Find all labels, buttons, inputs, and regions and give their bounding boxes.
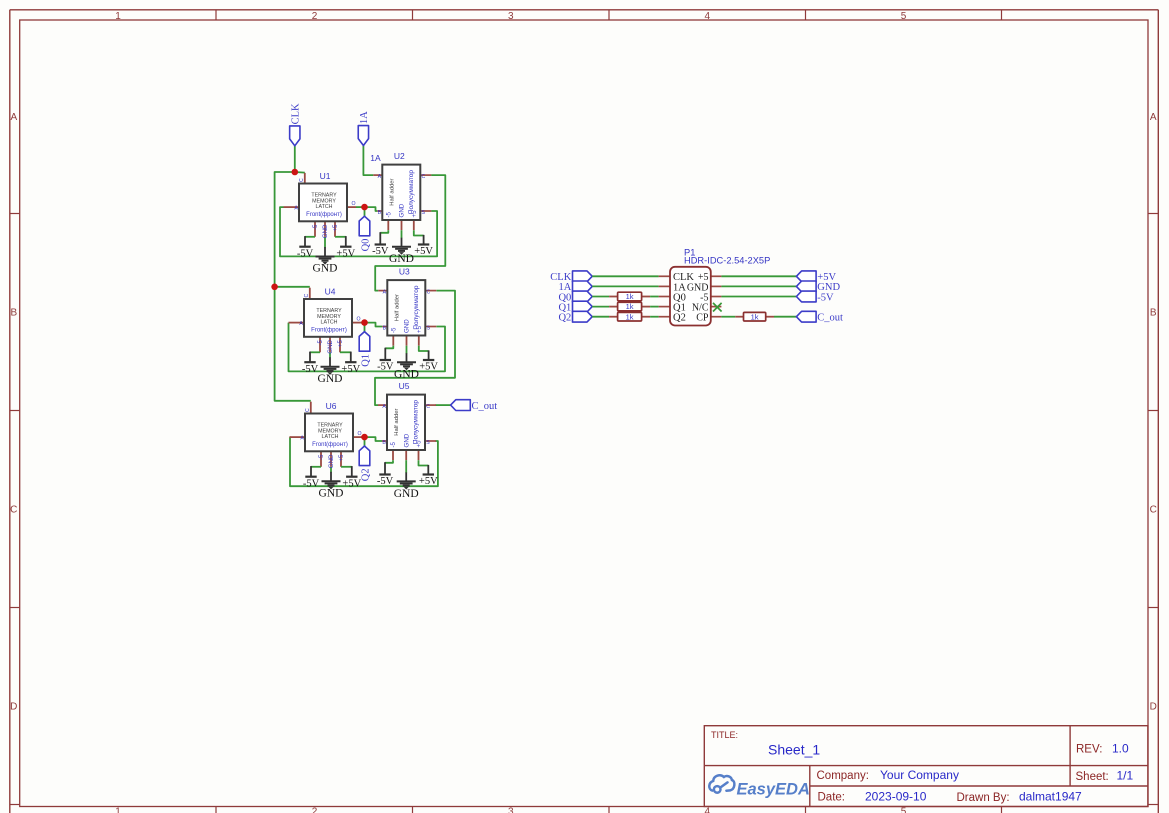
svg-text:Q2: Q2 <box>558 313 571 324</box>
svg-text:Sheet:: Sheet: <box>1076 771 1109 783</box>
svg-text:S: S <box>422 210 426 216</box>
U3 pin label C <box>427 289 431 295</box>
net flag Q0 at P1 <box>558 291 592 303</box>
U5 body <box>387 395 425 450</box>
title block REV label <box>1076 743 1102 755</box>
U6 +5V power symbol <box>341 466 362 489</box>
svg-text:C: C <box>426 404 430 410</box>
U2 -5V power symbol <box>372 230 389 257</box>
P1 left pin names <box>673 272 694 323</box>
svg-text:Q1: Q1 <box>360 354 371 367</box>
U2 pin A stub <box>373 174 382 176</box>
net flag CLK at P1 <box>550 271 592 283</box>
U6 pin labels -5 GND +5 <box>318 454 345 468</box>
net label 1A on wire <box>370 153 381 163</box>
U1 pin labels -5 GND +5 <box>312 224 339 238</box>
wire Q0 junction to flag <box>364 207 366 216</box>
svg-text:GND: GND <box>394 369 419 381</box>
svg-text:-5V: -5V <box>302 364 319 375</box>
junction CLK at U1 <box>292 169 299 176</box>
EasyEDA logo text <box>737 781 810 799</box>
svg-text:C: C <box>305 408 311 412</box>
svg-text:S: S <box>426 440 430 446</box>
svg-text:Your Company: Your Company <box>880 768 959 782</box>
title block author dalmat1947 <box>1019 789 1082 803</box>
net flag Q2 <box>359 446 371 481</box>
svg-text:GND: GND <box>318 373 343 385</box>
svg-text:5: 5 <box>901 11 907 22</box>
wire CLK flag to P1 pin 1 <box>592 275 658 277</box>
U5 pin B stub <box>382 440 387 442</box>
U3 pin label B <box>383 325 387 331</box>
U4 power pin stubs <box>320 337 340 353</box>
svg-text:Q2: Q2 <box>360 468 371 481</box>
U2 GND symbol <box>389 230 414 265</box>
junction CLK spine at U4 <box>271 284 278 291</box>
net flag +5V at P1 <box>796 271 836 283</box>
wire Q0 flag to resistor R1 <box>592 296 609 298</box>
svg-text:5: 5 <box>901 807 907 813</box>
svg-text:-5: -5 <box>317 339 324 345</box>
svg-text:GND: GND <box>313 263 338 275</box>
svg-text:-5: -5 <box>390 441 397 447</box>
svg-text:1k: 1k <box>626 312 634 321</box>
U3 body <box>387 280 425 335</box>
svg-text:A: A <box>382 404 386 410</box>
wire CLK junction to U1 pin C <box>295 171 305 174</box>
U2 power pin stubs <box>388 220 414 230</box>
U3 power pin stubs <box>393 336 419 346</box>
svg-text:LATCH: LATCH <box>322 434 339 440</box>
P1 left pin 3 stub <box>659 296 670 298</box>
svg-text:U6: U6 <box>326 401 337 411</box>
net flag C_out at P1 <box>796 311 843 323</box>
svg-text:+5V: +5V <box>419 476 438 487</box>
U3 pin labels -5 GND +5 <box>391 319 424 333</box>
U2 pin labels -5 GND +5 <box>386 203 419 217</box>
svg-text:4: 4 <box>705 807 711 813</box>
svg-text:B: B <box>383 325 387 331</box>
svg-text:A: A <box>383 289 387 295</box>
title block company name <box>880 768 959 782</box>
resistor R1 leads <box>609 296 650 298</box>
wire 1A flag to U2 pin A <box>363 146 373 176</box>
P1 part name HDR-IDC-2.54-2X5P <box>684 256 770 266</box>
wire resistor R3 to P1 <box>650 316 659 318</box>
svg-text:3: 3 <box>508 11 514 22</box>
net flag Q2 at P1 <box>558 311 592 323</box>
svg-text:Date:: Date: <box>818 791 846 803</box>
resistor R4 leads <box>735 316 774 318</box>
U1 pin O stub <box>347 206 356 208</box>
svg-text:3: 3 <box>508 807 514 813</box>
title block revision 1.0 <box>1112 741 1129 755</box>
svg-text:A: A <box>299 321 303 327</box>
U6 pin O stub <box>353 436 362 438</box>
svg-text:Полусумматор: Полусумматор <box>408 170 415 214</box>
U5 +5V power symbol <box>419 460 439 487</box>
U4 reference designator <box>325 287 336 297</box>
U5 GND symbol <box>394 460 419 500</box>
title block sheet number 1/1 <box>1117 768 1134 782</box>
U4 +5V power symbol <box>340 352 361 375</box>
U6 power pin stubs <box>321 451 341 467</box>
svg-text:+5: +5 <box>338 454 345 462</box>
U1 power pin stubs <box>315 221 335 237</box>
U3 pin label S <box>427 325 431 331</box>
U5 pin C stub <box>425 404 436 406</box>
title block Sheet label <box>1076 771 1109 783</box>
wire U5 S feedback to U6 A <box>290 437 438 486</box>
svg-text:GND: GND <box>327 339 334 353</box>
U4 GND symbol <box>318 352 343 385</box>
svg-text:+5V: +5V <box>342 478 361 489</box>
svg-text:U2: U2 <box>394 151 405 161</box>
svg-text:+5V: +5V <box>336 248 355 259</box>
U4 pin label O <box>356 317 360 323</box>
junction Q0 node <box>361 204 368 211</box>
wire resistor R1 to P1 <box>650 296 659 298</box>
svg-text:1k: 1k <box>626 292 634 301</box>
svg-text:D: D <box>1150 701 1157 712</box>
wire U2 C to U3 A carry chain <box>375 175 445 291</box>
svg-text:EasyEDA: EasyEDA <box>737 781 810 799</box>
U1 pin A stub <box>284 206 300 208</box>
wire P1 CP to resistor R4 <box>721 316 735 318</box>
P1 right pin 6 stub <box>711 275 722 277</box>
svg-text:+5: +5 <box>337 339 344 347</box>
svg-text:1: 1 <box>115 807 121 813</box>
wire P1 +5 to +5V flag <box>721 275 796 277</box>
svg-text:-5V: -5V <box>303 478 320 489</box>
svg-text:A: A <box>294 205 298 211</box>
svg-text:-5: -5 <box>386 211 393 217</box>
U3 pin A stub <box>378 290 387 292</box>
U2 pin C stub <box>420 174 431 176</box>
U6 pin label O <box>357 431 361 437</box>
svg-text:+5: +5 <box>416 440 423 448</box>
wire Q0 junction to U2 pin B <box>365 207 378 211</box>
wire U4 O to junction Q1 <box>361 322 365 324</box>
svg-text:Q2: Q2 <box>673 313 686 324</box>
svg-text:A: A <box>10 112 17 123</box>
P1 left pin 1 stub <box>659 275 670 277</box>
net flag Q1 at P1 <box>558 301 592 313</box>
P1 left pin 2 stub <box>659 285 670 287</box>
svg-text:U4: U4 <box>325 287 336 297</box>
svg-text:GND: GND <box>389 253 414 265</box>
svg-text:HDR-IDC-2.54-2X5P: HDR-IDC-2.54-2X5P <box>684 256 770 266</box>
svg-text:C_out: C_out <box>472 401 498 412</box>
U3 pin label A <box>383 289 387 295</box>
U3 pin C stub <box>425 290 436 292</box>
wire U3 C to U5 A carry chain <box>375 291 455 406</box>
P1 left pin 5 stub <box>659 316 670 318</box>
wire Q2 flag to resistor R3 <box>592 316 609 318</box>
wire U3 S feedback to U4 A <box>289 323 446 372</box>
wire Q2 junction to flag <box>364 437 366 446</box>
U1 GND symbol <box>313 237 338 275</box>
svg-text:CP: CP <box>696 313 709 324</box>
svg-text:Q0: Q0 <box>360 239 371 252</box>
svg-text:GND: GND <box>394 488 419 500</box>
wire resistor R2 to P1 <box>650 306 659 308</box>
P1 right pin names <box>687 272 709 323</box>
U5 pin S stub <box>425 440 436 442</box>
svg-text:B: B <box>382 440 386 446</box>
P1 right pin 10 stub <box>711 316 722 318</box>
wire Q1 flag to resistor R2 <box>592 306 609 308</box>
U2 pin label A <box>378 174 382 180</box>
U3 reference designator <box>399 267 410 277</box>
net flag Q1 <box>359 332 371 367</box>
svg-text:+5: +5 <box>332 224 339 232</box>
svg-text:GND: GND <box>404 319 411 333</box>
svg-text:B: B <box>378 210 382 216</box>
EasyEDA logo icon <box>709 775 734 792</box>
resistor R3 leads <box>609 316 650 318</box>
wire CLK flag to junction <box>294 146 296 172</box>
svg-text:U3: U3 <box>399 267 410 277</box>
wire U5 C to C_out flag <box>435 404 450 406</box>
svg-text:+5V: +5V <box>341 364 360 375</box>
U5 pin label S <box>426 440 430 446</box>
net flag 1A at P1 <box>558 281 592 293</box>
wire resistor R4 to C_out flag <box>774 316 796 318</box>
svg-text:-5V: -5V <box>372 246 389 257</box>
U2 +5V power symbol <box>414 230 434 257</box>
svg-text:GND: GND <box>399 203 406 217</box>
svg-text:1/1: 1/1 <box>1117 768 1134 782</box>
no-connect X on P1 N/C pin <box>713 303 722 312</box>
ruler column numbers bottom <box>115 807 907 813</box>
svg-text:-5: -5 <box>312 224 319 230</box>
svg-text:1k: 1k <box>626 302 634 311</box>
U1 pin label O <box>351 201 355 207</box>
P1 right pin 7 stub <box>711 285 722 287</box>
svg-text:U5: U5 <box>399 381 410 391</box>
svg-text:Полусумматор: Полусумматор <box>413 285 420 329</box>
U4 -5V power symbol <box>302 352 320 375</box>
svg-text:U1: U1 <box>320 171 331 181</box>
svg-text:-5: -5 <box>318 454 325 460</box>
svg-text:1A: 1A <box>370 153 381 163</box>
svg-text:O: O <box>351 201 355 207</box>
net flag C_out at U5 <box>451 400 498 412</box>
wire Q2 junction to U5 pin B <box>365 437 383 441</box>
U4 pin A stub <box>289 322 305 324</box>
svg-text:Sheet_1: Sheet_1 <box>768 741 820 757</box>
wire U1 O to junction Q0 <box>356 206 365 208</box>
svg-text:REV:: REV: <box>1076 743 1102 755</box>
U1 -5V power symbol <box>297 236 315 259</box>
svg-text:-5V: -5V <box>377 361 394 372</box>
svg-text:Half adder: Half adder <box>389 178 395 205</box>
U5 power pin stubs <box>393 450 419 460</box>
svg-text:C: C <box>422 174 426 180</box>
resistor R2 1k <box>618 302 642 311</box>
svg-text:LATCH: LATCH <box>316 204 333 210</box>
svg-text:O: O <box>357 431 361 437</box>
U2 pin B stub <box>377 210 382 212</box>
U5 -5V power symbol <box>377 460 394 487</box>
ruler row ticks <box>10 214 1159 805</box>
U3 pin B stub <box>382 326 387 328</box>
wire CLK spine branch to U4 pin C <box>275 286 310 288</box>
svg-text:C: C <box>10 504 17 515</box>
resistor R3 1k <box>618 312 642 321</box>
resistor R4 1k <box>744 312 766 321</box>
svg-text:Half adder: Half adder <box>394 408 400 435</box>
svg-text:-5V: -5V <box>377 476 394 487</box>
title block Date label <box>818 791 846 803</box>
svg-text:+5: +5 <box>411 210 418 218</box>
U3 GND symbol <box>394 346 419 381</box>
net flag CLK <box>290 103 302 146</box>
svg-text:1k: 1k <box>751 312 759 321</box>
U4 pin label A <box>299 321 303 327</box>
U2 pin label B <box>378 210 382 216</box>
U4 pin labels -5 GND +5 <box>317 339 344 353</box>
svg-text:4: 4 <box>705 11 711 22</box>
svg-text:O: O <box>356 317 360 323</box>
U4 pin O stub <box>352 322 361 324</box>
svg-text:-5V: -5V <box>297 248 314 259</box>
U1 body <box>299 184 347 222</box>
svg-text:Front(фронт): Front(фронт) <box>311 327 347 333</box>
U1 pin C stub <box>304 173 306 184</box>
svg-text:Drawn By:: Drawn By: <box>957 792 1010 804</box>
U2 pin label S <box>422 210 426 216</box>
svg-text:A: A <box>300 435 304 441</box>
svg-text:Front(фронт): Front(фронт) <box>312 442 348 448</box>
U4 pin label C <box>304 294 310 298</box>
U6 body <box>305 414 353 452</box>
U2 pin label C <box>422 174 426 180</box>
svg-text:C: C <box>304 294 310 298</box>
U6 pin C stub <box>310 402 312 414</box>
P1 left pin 4 stub <box>659 306 670 308</box>
svg-text:GND: GND <box>322 224 329 238</box>
svg-text:Half adder: Half adder <box>394 294 400 321</box>
svg-text:S: S <box>427 325 431 331</box>
wire CLK spine down to U6 <box>275 287 311 401</box>
U5 pin label B <box>382 440 386 446</box>
svg-text:-5V: -5V <box>817 292 834 303</box>
svg-text:2023-09-10: 2023-09-10 <box>865 789 927 803</box>
svg-text:A: A <box>378 174 382 180</box>
junction Q1 node <box>361 319 368 326</box>
svg-text:dalmat1947: dalmat1947 <box>1019 789 1082 803</box>
svg-text:LATCH: LATCH <box>321 320 338 326</box>
U6 pin label A <box>300 435 304 441</box>
svg-text:A: A <box>1150 112 1157 123</box>
net flag 1A <box>358 111 370 146</box>
U6 GND symbol <box>319 467 344 500</box>
wire P1 GND to GND flag <box>721 285 796 287</box>
U6 -5V power symbol <box>303 466 321 489</box>
connector P1 body <box>670 267 711 326</box>
svg-text:B: B <box>1150 307 1157 318</box>
svg-text:+5V: +5V <box>414 246 433 257</box>
title block Company label <box>817 770 869 782</box>
wire U2 S feedback to U1 A <box>280 207 437 256</box>
ruler column numbers top <box>115 11 907 22</box>
ruler row letters right <box>1150 112 1157 712</box>
wire P1 -5 to -5V flag <box>721 296 796 298</box>
resistor R2 leads <box>609 306 650 308</box>
wire U6 O to junction Q2 <box>362 436 365 438</box>
svg-text:+5V: +5V <box>419 361 438 372</box>
svg-text:Front(фронт): Front(фронт) <box>306 212 342 218</box>
svg-text:Company:: Company: <box>817 770 869 782</box>
junction Q2 node <box>361 434 368 441</box>
svg-text:1A: 1A <box>359 111 370 124</box>
P1 reference designator <box>684 247 695 257</box>
P1 right pin 8 stub <box>711 296 722 298</box>
net flag Q0 <box>359 216 371 251</box>
svg-text:GND: GND <box>328 454 335 468</box>
U5 pin labels -5 GND +5 <box>390 433 423 447</box>
U1 reference designator <box>320 171 331 181</box>
U4 body <box>304 299 352 337</box>
U6 pin A stub <box>290 436 306 438</box>
net flag GND at P1 <box>796 281 840 293</box>
U3 -5V power symbol <box>377 346 394 373</box>
U1 pin label A <box>294 205 298 211</box>
title block sheet name Sheet_1 <box>768 741 820 757</box>
svg-text:TITLE:: TITLE: <box>711 730 738 740</box>
svg-text:1: 1 <box>115 11 121 22</box>
U5 pin A stub <box>378 404 387 406</box>
U4 pin C stub <box>309 288 311 299</box>
wire Q1 junction to U3 pin B <box>365 323 383 327</box>
wire CLK spine left and down <box>275 172 295 287</box>
U2 reference designator <box>394 151 405 161</box>
U1 +5V power symbol <box>335 236 356 259</box>
U6 pin label C <box>305 408 311 412</box>
svg-text:1.0: 1.0 <box>1112 741 1129 755</box>
svg-text:D: D <box>10 701 17 712</box>
svg-text:2: 2 <box>312 11 318 22</box>
svg-text:GND: GND <box>319 488 344 500</box>
U5 reference designator <box>399 381 410 391</box>
svg-text:C: C <box>1150 504 1157 515</box>
svg-text:B: B <box>10 307 17 318</box>
svg-text:C: C <box>427 289 431 295</box>
U1 pin label C <box>299 178 305 182</box>
U5 pin label A <box>382 404 386 410</box>
svg-text:GND: GND <box>403 433 410 447</box>
wire Q1 junction to flag <box>364 323 366 332</box>
resistor R1 1k <box>618 292 642 301</box>
wire 1A flag to P1 pin 2 <box>592 285 658 287</box>
ruler row letters left <box>10 112 17 712</box>
title block frame <box>704 726 1148 807</box>
P1 right pin 9 stub <box>711 306 722 308</box>
U3 pin S stub <box>425 326 436 328</box>
U2 body <box>382 165 420 220</box>
svg-text:CLK: CLK <box>291 103 302 124</box>
svg-text:+5: +5 <box>416 325 423 333</box>
U6 reference designator <box>326 401 337 411</box>
title block Drawn By label <box>957 792 1010 804</box>
svg-text:2: 2 <box>312 807 318 813</box>
U3 +5V power symbol <box>419 346 439 373</box>
U2 pin S stub <box>420 210 431 212</box>
svg-text:C_out: C_out <box>817 313 843 324</box>
net flag -5V at P1 <box>796 291 834 303</box>
